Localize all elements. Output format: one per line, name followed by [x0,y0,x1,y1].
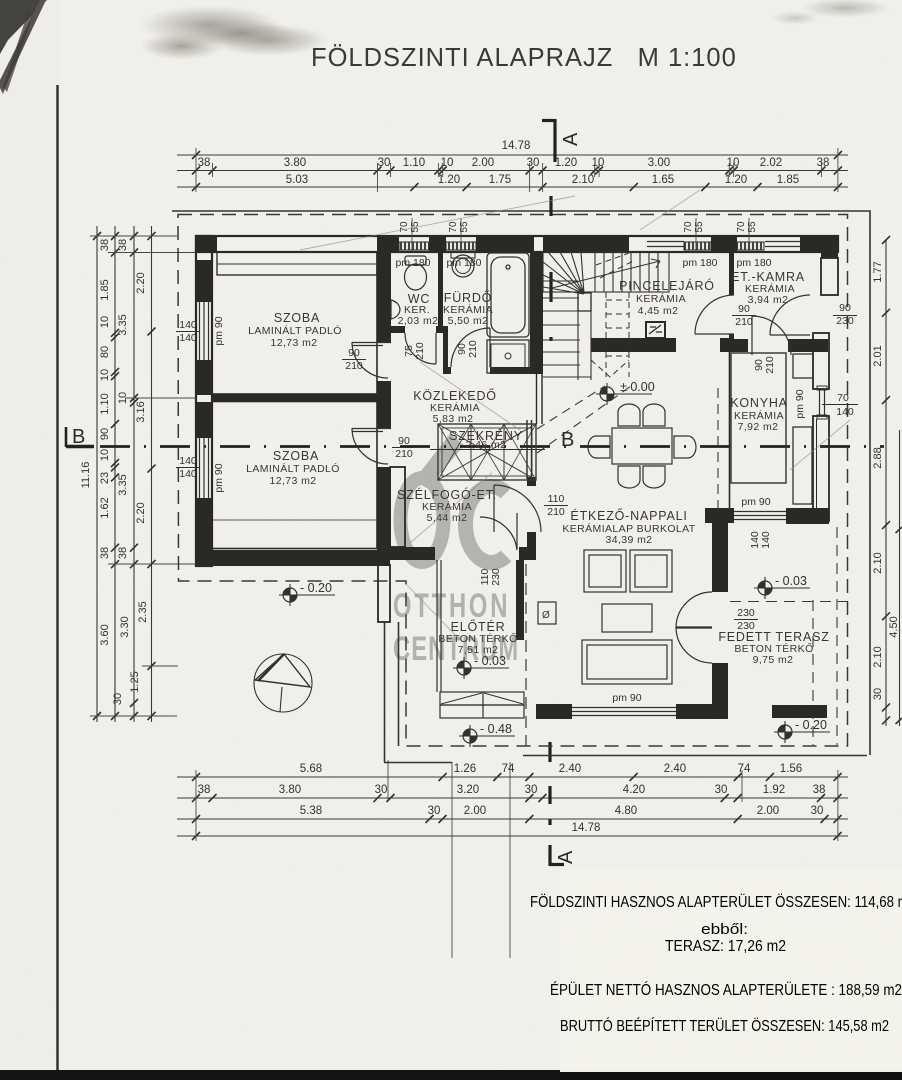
right dim labels (rotated) [872,261,900,700]
svg-text:90: 90 [839,302,851,314]
svg-text:1.20: 1.20 [438,174,460,186]
bottom dim lines [177,776,848,778]
svg-text:12,73 m2: 12,73 m2 [271,337,318,349]
svg-text:140: 140 [760,531,772,549]
svg-text:2.00: 2.00 [757,805,779,817]
svg-text:BETON TÉRKŐ: BETON TÉRKŐ [734,641,813,655]
door szoba2 [352,428,391,464]
svg-text:10: 10 [99,369,111,381]
szoba1 inner outline [212,252,377,394]
right flight treads [595,252,658,292]
going line with arrow [552,261,660,288]
left page border line [56,85,58,1072]
svg-text:38: 38 [813,784,826,796]
svg-text:70: 70 [448,221,459,233]
svg-text:210: 210 [414,342,426,360]
left outer wall outline [196,236,212,566]
bottom dim labels [198,763,826,834]
svg-text:SZOBA: SZOBA [274,311,320,325]
svg-text:38: 38 [817,157,830,169]
svg-text:34,39 m2: 34,39 m2 [606,534,653,546]
svg-text:7,51 m2: 7,51 m2 [458,644,499,656]
svg-text:140: 140 [179,332,197,344]
svg-text:- 0.03: - 0.03 [775,574,807,588]
right wall window 70/140 [817,386,827,419]
svg-text:9,75 m2: 9,75 m2 [753,654,794,666]
svg-text:1.10: 1.10 [99,393,111,414]
svg-text:30: 30 [872,688,884,700]
door szoba1 [352,342,391,378]
eloter west wall stub [378,565,390,622]
svg-text:2.02: 2.02 [760,157,782,169]
konyha south wall [705,508,829,524]
stair south wall [591,338,676,352]
watermark C [465,487,506,563]
svg-text:70: 70 [837,392,849,404]
svg-text:110: 110 [548,493,565,505]
watermark oc logo accent [414,434,464,489]
svg-text:Ø: Ø [542,610,550,621]
svg-text:30: 30 [811,805,824,817]
svg-text:3,94 m2: 3,94 m2 [748,294,789,306]
svg-text:4.80: 4.80 [615,805,637,817]
svg-text:B: B [561,429,574,451]
left wall piers black [196,260,212,566]
winder fan [543,252,584,294]
svg-text:± 0.00: ± 0.00 [620,380,655,394]
left ticks [93,232,156,720]
svg-text:2.10: 2.10 [572,174,594,186]
svg-text:2,03 m2: 2,03 m2 [398,315,439,327]
svg-text:230: 230 [490,568,502,586]
door szelfogo-eloter [480,513,517,550]
vent blocks hatched [399,242,429,250]
szoba bottom wall [196,550,390,566]
entry door [494,485,541,532]
shower tray [487,340,529,373]
svg-text:38: 38 [99,239,111,251]
watermark CENTRUM [393,630,519,668]
svg-text:5,50 m2: 5,50 m2 [448,315,489,327]
svg-text:2.35: 2.35 [137,601,149,622]
terrace double doors [676,592,712,628]
svg-text:10: 10 [727,157,740,169]
svg-text:2.00: 2.00 [472,157,494,169]
svg-text:2.88: 2.88 [872,447,884,468]
svg-text:30: 30 [112,693,124,705]
svg-text:90: 90 [398,435,410,447]
svg-text:3.35: 3.35 [117,314,129,335]
svg-text:- 0.03: - 0.03 [474,654,506,668]
left dim lines [96,226,98,722]
svg-text:TERASZ: 17,26 m2: TERASZ: 17,26 m2 [665,938,786,955]
etkezo bottom wall [536,704,728,719]
svg-text:pm 180: pm 180 [395,257,430,269]
watermark O [401,478,444,562]
svg-text:38: 38 [198,157,211,169]
svg-text:1.20: 1.20 [555,157,577,169]
svg-text:1.62: 1.62 [99,497,111,518]
svg-text:38: 38 [99,547,111,559]
svg-text:3.80: 3.80 [284,157,306,169]
top wall window szoba1 [217,252,377,275]
svg-text:30: 30 [428,805,441,817]
WC / FURDO walls [391,252,543,374]
svg-text:FÜRDŐ: FÜRDŐ [444,290,492,305]
svg-text:1.56: 1.56 [780,763,802,775]
svg-text:74: 74 [502,763,515,775]
left wall window 1 [200,302,209,360]
svg-text:70: 70 [399,221,410,233]
left extension horizontals [90,236,196,716]
etkezo-konyha dashed boundary [717,388,719,508]
porch east dashed [525,564,527,746]
svg-text:1.92: 1.92 [763,784,785,796]
svg-text:2.00: 2.00 [464,805,486,817]
svg-text:2.40: 2.40 [559,763,581,775]
svg-text:80: 80 [99,346,111,358]
svg-text:3.00: 3.00 [648,157,670,169]
dashed diagonals to dining [537,386,631,453]
konyha west wall [729,341,731,508]
svg-text:- 0.20: - 0.20 [300,581,332,595]
section line A-A dashes through plan [549,196,552,341]
svg-text:210: 210 [345,360,363,372]
svg-text:230: 230 [737,607,755,619]
svg-text:10: 10 [592,157,605,169]
svg-text:KERÁMIA: KERÁMIA [636,292,686,305]
svg-text:pm 90: pm 90 [213,463,225,492]
svg-text:1.85: 1.85 [99,279,111,300]
svg-text:ELŐTÉR: ELŐTÉR [451,619,506,634]
svg-text:FÖLDSZINTI HASZNOS ALAPTERÜLET: FÖLDSZINTI HASZNOS ALAPTERÜLET ÖSSZESEN:… [530,893,902,911]
svg-text:5,44 m2: 5,44 m2 [427,512,468,524]
svg-text:3.16: 3.16 [135,401,147,422]
fraction lines for labels [176,316,858,708]
bottom black bar [0,1072,902,1080]
svg-text:B: B [72,426,85,448]
top dim labels [198,140,830,186]
svg-text:10: 10 [99,449,111,461]
svg-text:A: A [560,132,582,146]
svg-text:3.35: 3.35 [117,474,129,495]
door kamra-konyha [752,316,791,355]
bottom ticks [192,773,842,840]
furdo sink [451,252,475,258]
svg-text:2,46 m2: 2,46 m2 [466,439,507,451]
toilet WC [405,256,427,290]
living-kitchen corner pier [712,523,728,592]
svg-text:LAMINÁLT PADLÓ: LAMINÁLT PADLÓ [248,324,342,337]
svg-text:5,83 m2: 5,83 m2 [433,413,474,425]
svg-text:pm 90: pm 90 [794,389,806,418]
svg-text:14.78: 14.78 [502,140,531,152]
szoba2 floor line [213,519,377,521]
kamra west wall [729,252,734,295]
top outer wall outline [196,236,838,252]
svg-text:2.01: 2.01 [872,345,884,366]
section marker B left [66,426,884,448]
basement hatch box [646,322,665,338]
svg-text:5.03: 5.03 [286,174,308,186]
svg-text:1.10: 1.10 [403,157,425,169]
door WC [405,333,436,364]
svg-text:7,92 m2: 7,92 m2 [738,421,779,433]
svg-text:140: 140 [179,319,197,331]
svg-text:KONYHA: KONYHA [730,396,788,410]
svg-text:1.75: 1.75 [489,174,511,186]
stair lower flight dashed [591,253,635,377]
left wall window 2 [200,438,209,498]
section marker A bottom [550,742,577,866]
faint scratches [300,190,850,640]
svg-text:210: 210 [467,340,479,358]
gray smudge top-centre [138,5,282,45]
eloter steps [440,692,524,718]
svg-text:1.25: 1.25 [129,671,141,692]
svg-text:4.50: 4.50 [888,616,900,637]
svg-text:3.60: 3.60 [99,624,111,645]
watermark OC OTTHON CENTRUM [393,434,519,668]
etkezo-eloter wall / szelfogo south [390,547,435,560]
svg-text:ÉPÜLET NETTÓ HASZNOS ALAPTERÜL: ÉPÜLET NETTÓ HASZNOS ALAPTERÜLETE : 188,… [550,981,902,999]
svg-text:30: 30 [525,784,538,796]
svg-text:LAMINÁLT PADLÓ: LAMINÁLT PADLÓ [246,462,340,475]
door FURDO [451,328,490,367]
svg-text:ET.-KAMRA: ET.-KAMRA [731,270,805,284]
svg-text:BETON TÉRKŐ: BETON TÉRKŐ [438,631,517,645]
svg-text:BRUTTÓ BEÉPÍTETT TERÜLET ÖSSZE: BRUTTÓ BEÉPÍTETT TERÜLET ÖSSZESEN: 145,5… [560,1017,889,1035]
section marker A top [542,119,582,162]
door kamra exterior [770,295,810,335]
szelfogo west wall outline [390,467,405,547]
right ticks [882,236,902,724]
svg-text:FEDETT TERASZ: FEDETT TERASZ [718,630,829,644]
svg-text:SZOBA: SZOBA [273,449,319,463]
insulation dashed boundary [178,215,848,747]
tick marks top [192,151,842,191]
svg-text:ebből:: ebből: [701,921,748,938]
svg-text:ÉTKEZŐ-NAPPALI: ÉTKEZŐ-NAPPALI [570,508,687,523]
svg-text:140: 140 [179,455,197,467]
svg-text:3.20: 3.20 [457,784,479,796]
svg-text:A: A [555,850,577,864]
etkezo west wall [527,420,532,479]
svg-text:74: 74 [738,763,751,775]
terrace dashed verticals [812,600,814,745]
hall east wall lines [537,374,543,424]
svg-text:1.85: 1.85 [777,174,799,186]
kamra south wall [729,339,748,352]
pavement edge line [523,755,867,757]
svg-text:2.10: 2.10 [872,646,884,667]
svg-text:11.16: 11.16 [80,462,92,489]
terrace dashed north boundary [730,601,847,603]
svg-text:KÖZLEKEDŐ: KÖZLEKEDŐ [413,388,497,403]
svg-text:210: 210 [764,356,776,374]
svg-text:1.20: 1.20 [725,174,747,186]
svg-text:- 0.48: - 0.48 [480,722,512,736]
svg-text:pm 90: pm 90 [612,692,641,704]
svg-text:14.78: 14.78 [572,822,601,834]
svg-text:10: 10 [99,316,111,328]
top wall black segments [196,236,838,253]
svg-text:4,45 m2: 4,45 m2 [638,305,679,317]
svg-text:5.68: 5.68 [300,763,322,775]
tv cabinet [538,602,556,624]
svg-text:140: 140 [836,406,854,418]
svg-text:SZÉLFOGÓ-ET.: SZÉLFOGÓ-ET. [397,487,497,502]
svg-text:pm 180: pm 180 [682,257,717,269]
vent labels 70/55 [399,221,758,233]
left dim labels (rotated) [80,239,149,705]
svg-text:30: 30 [527,157,540,169]
svg-text:pm 90: pm 90 [741,496,770,508]
svg-text:5.38: 5.38 [300,805,322,817]
svg-text:210: 210 [547,506,565,518]
walkway step lines [384,622,452,763]
svg-text:140: 140 [179,468,197,480]
svg-text:PINCELEJÁRÓ: PINCELEJÁRÓ [619,278,715,293]
top wall window kamra [765,242,800,247]
svg-text:pm 180: pm 180 [446,257,481,269]
svg-text:pm 180: pm 180 [736,257,771,269]
svg-text:2.20: 2.20 [135,272,147,293]
door kamra from stair [695,295,734,334]
svg-text:pm 90: pm 90 [213,316,225,345]
svg-text:30: 30 [715,784,728,796]
szoba2 inner outline [212,402,377,549]
watermark OTTHON [393,587,510,625]
flight divider [578,292,591,380]
konyha floor rect [731,353,786,483]
svg-text:FÖLDSZINTI ALAPRAJZ M 1:100: FÖLDSZINTI ALAPRAJZ M 1:100 [311,44,737,72]
terrace bottom pier [772,705,827,718]
living room right wall [712,663,728,704]
top dim lines [177,154,848,156]
svg-text:230: 230 [737,620,755,632]
svg-text:- 0.20: - 0.20 [795,718,827,732]
right outer wall [821,236,838,258]
bottom extension verticals [196,760,838,958]
top wall window stair [647,242,684,247]
property boundary solid [172,211,870,755]
svg-text:3.80: 3.80 [279,784,301,796]
svg-text:90: 90 [99,428,111,440]
stair well box [543,252,669,292]
top extension verticals [196,148,838,192]
svg-text:12,73 m2: 12,73 m2 [270,475,317,487]
svg-text:210: 210 [395,448,413,460]
svg-text:90: 90 [738,303,750,315]
bathtub [487,253,529,337]
svg-text:70: 70 [736,221,747,233]
svg-text:90: 90 [348,347,360,359]
newel post [578,293,591,311]
svg-text:230: 230 [836,315,854,327]
wc sink [391,300,400,319]
right wall outlined lower part [813,333,829,521]
svg-text:23: 23 [99,472,111,484]
svg-text:3.30: 3.30 [119,616,131,637]
svg-text:1.65: 1.65 [652,174,674,186]
svg-text:1.26: 1.26 [454,763,476,775]
svg-text:210: 210 [735,316,753,328]
svg-text:38: 38 [117,547,129,559]
svg-text:30: 30 [378,157,391,169]
svg-text:2.20: 2.20 [135,502,147,523]
szoba east wall black segments [377,252,391,550]
svg-text:4.20: 4.20 [623,784,645,796]
top-left black corner smudge [0,0,47,54]
svg-text:1.77: 1.77 [872,261,884,282]
svg-text:2.40: 2.40 [664,763,686,775]
right dim line [885,240,887,726]
svg-text:70: 70 [683,221,694,233]
left flight treads [543,281,591,377]
szoba divider wall [212,394,377,402]
svg-text:2.10: 2.10 [872,552,884,573]
kitchen counters [793,354,813,504]
